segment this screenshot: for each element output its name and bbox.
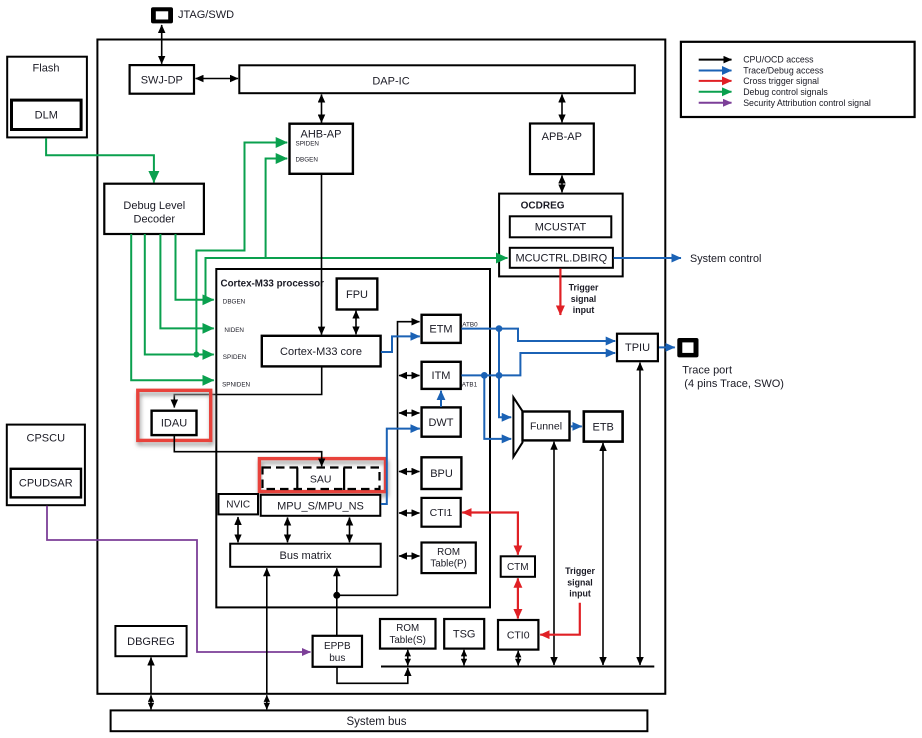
wire CTI1 to CTM (red): [462, 513, 518, 555]
wire DBGEN branch to MCUCTRL.DBIRQ (green): [206, 258, 508, 300]
box DBGREG: [115, 626, 186, 656]
wire trunk to BPU: [399, 471, 420, 473]
wire trunk horizontal: [337, 594, 398, 596]
node Trigger signal input label lower: [565, 566, 595, 599]
Trace port connector icon: [677, 338, 698, 357]
box ROM Table(P): [422, 543, 476, 574]
wire ATB0 branch to Funnel (blue): [499, 329, 511, 418]
svg-text:System bus: System bus: [346, 716, 406, 728]
wire MCUCTRL.DBIRQ to System control (blue): [614, 257, 682, 259]
svg-text:DWT: DWT: [428, 417, 453, 429]
svg-text:IDAU: IDAU: [161, 418, 187, 430]
svg-text:DAP-IC: DAP-IC: [372, 76, 409, 88]
box NVIC: [219, 494, 259, 514]
box Bus matrix: [230, 544, 381, 567]
svg-text:Security Attribution control s: Security Attribution control signal: [743, 98, 871, 108]
wire DLD to SPNIDEN (green): [131, 234, 214, 380]
wire EPPB bus to trace bus: [337, 668, 408, 684]
svg-text:SAU: SAU: [310, 474, 332, 486]
wire FPU to core: [355, 311, 357, 335]
svg-text:TSG: TSG: [453, 629, 476, 641]
wire DLD to DBGEN (green): [176, 234, 214, 300]
wire ETB to trace bus: [602, 443, 604, 665]
box OCDREG: [499, 194, 623, 277]
outer MCU box: [97, 40, 665, 694]
svg-text:signal: signal: [567, 577, 592, 587]
wire TPIU to Trace port (blue): [659, 346, 675, 348]
box DLM: [12, 100, 82, 129]
box IDAU: [152, 411, 197, 435]
svg-text:MCUCTRL.DBIRQ: MCUCTRL.DBIRQ: [515, 253, 607, 265]
legend box: [681, 42, 915, 117]
wire MPU to DWT (blue): [381, 429, 420, 504]
wire DLM to Debug Level Decoder (green): [46, 138, 154, 182]
svg-text:ITM: ITM: [432, 370, 451, 382]
svg-text:BPU: BPU: [430, 468, 453, 480]
svg-text:ETB: ETB: [592, 421, 613, 433]
junction ATB1 right (blue): [496, 372, 503, 379]
wire DWT to ITM (blue): [440, 391, 442, 407]
svg-text:SPNIDEN: SPNIDEN: [222, 382, 250, 389]
wire ATB0 ETM to TPIU (blue): [461, 329, 615, 341]
box CTM: [501, 556, 535, 577]
wire DAP-IC to AHB-AP: [321, 95, 323, 123]
wire JTAG to SWJ-DP: [161, 25, 163, 64]
svg-text:CPU/OCD access: CPU/OCD access: [743, 55, 814, 65]
highlight red box around IDAU: [138, 390, 211, 440]
box Cortex-M33 core: [262, 336, 381, 367]
svg-text:NIDEN: NIDEN: [224, 327, 244, 334]
wire core to ETM (blue): [381, 336, 420, 352]
svg-text:Debug Level: Debug Level: [123, 200, 185, 212]
legend Cross trigger signal: [699, 76, 819, 86]
wire DLD to NIDEN (green): [160, 234, 213, 328]
svg-text:ETM: ETM: [429, 324, 452, 336]
box CPUDSAR: [11, 469, 81, 498]
wire CPSCU to EPPB bus (purple): [47, 506, 311, 652]
svg-text:APB-AP: APB-AP: [542, 131, 582, 143]
node Trigger signal input label upper: [569, 283, 599, 316]
svg-text:DBGEN: DBGEN: [296, 157, 319, 164]
svg-text:Trigger: Trigger: [565, 566, 595, 576]
wire ATB1 ITM to TPIU (blue): [461, 353, 615, 375]
svg-text:DLM: DLM: [35, 110, 58, 122]
box FPU: [337, 279, 378, 310]
svg-text:Trigger: Trigger: [569, 283, 599, 293]
box ROM Table(S): [380, 619, 436, 649]
wire trunk to ROM Table(P): [399, 555, 420, 557]
wire Bus matrix to System bus: [266, 568, 268, 694]
wire trunk to ITM: [399, 375, 420, 377]
wire CTM to CTI0 (red): [517, 578, 519, 618]
shadow IDAU red box: [139, 394, 212, 444]
wire SWJ-DP to DAP-IC: [196, 78, 239, 80]
shadow SAU red box: [261, 462, 387, 495]
box MCUCTRL.DBIRQ: [510, 248, 613, 268]
box SAU dashed outer: [263, 468, 380, 490]
wire SPIDEN branch to AHB-AP (green): [196, 143, 287, 355]
box Debug Level Decoder: [104, 184, 204, 234]
wire IDAU to SAU: [174, 436, 321, 466]
svg-text:Trace port: Trace port: [682, 364, 732, 376]
svg-text:EPPB: EPPB: [324, 641, 351, 652]
box SWJ-DP: [130, 65, 194, 94]
svg-text:ROM: ROM: [437, 547, 460, 558]
svg-text:Decoder: Decoder: [134, 214, 176, 226]
wire APB-AP to OCDREG: [561, 176, 563, 193]
wire trunk to DWT: [399, 412, 420, 414]
highlight red box around SAU: [259, 459, 385, 492]
wire trigger signal input from MCUCTRL.DBIRQ (red): [559, 269, 561, 316]
svg-text:Trace/Debug access: Trace/Debug access: [743, 66, 824, 76]
JTAG/SWD connector icon: [151, 7, 234, 23]
svg-text:DBGREG: DBGREG: [127, 636, 175, 648]
svg-text:OCDREG: OCDREG: [521, 201, 565, 212]
box CTI1: [422, 498, 461, 527]
svg-text:ATB1: ATB1: [462, 381, 478, 388]
box MPU_S/MPU_NS: [261, 495, 381, 516]
box DAP-IC: [239, 65, 635, 93]
box ITM: [422, 362, 461, 389]
wire DBGEN branch to AHB-AP (green): [266, 159, 288, 259]
svg-text:input: input: [569, 589, 591, 599]
svg-text:NVIC: NVIC: [226, 500, 250, 511]
svg-text:CPUDSAR: CPUDSAR: [19, 478, 73, 490]
junction DBGEN (green): [203, 297, 209, 303]
legend Trace/Debug access: [699, 66, 824, 76]
wire TPIU to trace bus: [639, 363, 641, 665]
svg-text:Bus matrix: Bus matrix: [280, 550, 332, 562]
wire DBGREG to System bus: [150, 658, 152, 695]
svg-text:Debug control signals: Debug control signals: [743, 87, 828, 97]
wire Funnel to trace bus: [553, 442, 555, 665]
svg-text:CTI0: CTI0: [507, 630, 530, 642]
box Cortex-M33 processor: [216, 269, 490, 607]
box MCUSTAT: [510, 216, 612, 237]
wire trigger signal input to CTI0 (red): [540, 603, 580, 635]
box EPPB bus: [313, 636, 362, 667]
wire NVIC to Bus matrix: [237, 517, 239, 542]
wire trunk vertical to ETM: [398, 322, 420, 596]
junction ATB1 left (blue): [481, 372, 488, 379]
wire AHB-AP to Cortex-M33 core: [321, 175, 323, 335]
wire DAP-IC to APB-AP: [561, 95, 563, 123]
box CPSCU: [7, 425, 85, 506]
legend Debug control signals: [699, 87, 829, 97]
svg-text:SWJ-DP: SWJ-DP: [141, 75, 183, 87]
wire trace bus horizontal: [381, 666, 654, 668]
box SAU compartment: [297, 468, 344, 491]
svg-text:bus: bus: [329, 653, 345, 664]
svg-text:Cross trigger signal: Cross trigger signal: [743, 76, 819, 86]
box Funnel: [523, 412, 570, 441]
svg-text:Table(P): Table(P): [430, 559, 466, 570]
svg-text:input: input: [573, 305, 595, 315]
wire DLD to SPIDEN (green): [145, 234, 214, 355]
junction ATB0 (blue): [496, 325, 503, 332]
wire ROM Table(S) to trace bus: [407, 650, 409, 666]
svg-text:MPU_S/MPU_NS: MPU_S/MPU_NS: [277, 500, 364, 512]
wire Bus matrix to EPPB bus: [336, 568, 338, 635]
svg-text:FPU: FPU: [346, 289, 368, 301]
svg-text:DBGEN: DBGEN: [223, 299, 246, 306]
box DWT: [422, 407, 461, 436]
legend CPU/OCD access: [699, 55, 814, 65]
svg-text:Table(S): Table(S): [389, 635, 425, 646]
box TSG: [444, 619, 484, 649]
svg-text:signal: signal: [571, 294, 596, 304]
svg-text:SPIDEN: SPIDEN: [296, 140, 320, 147]
wire Funnel to ETB (blue): [571, 425, 582, 427]
svg-text:AHB-AP: AHB-AP: [301, 128, 342, 140]
svg-text:CPSCU: CPSCU: [27, 433, 66, 445]
wire TSG to trace bus: [463, 650, 465, 666]
box BPU: [422, 457, 462, 489]
svg-text:Cortex-M33 core: Cortex-M33 core: [280, 346, 362, 358]
svg-text:(4 pins Trace, SWO): (4 pins Trace, SWO): [684, 378, 784, 390]
wire trunk to CTI1: [399, 512, 420, 514]
svg-text:Cortex-M33 processor: Cortex-M33 processor: [221, 279, 325, 290]
node Trace port label: [682, 364, 784, 389]
box AHB-AP: [290, 124, 353, 174]
svg-text:SPIDEN: SPIDEN: [223, 354, 247, 361]
svg-text:ATB0: ATB0: [462, 321, 478, 328]
svg-text:CTM: CTM: [507, 562, 529, 573]
svg-text:Flash: Flash: [33, 63, 60, 75]
svg-text:JTAG/SWD: JTAG/SWD: [178, 9, 234, 21]
funnel symbol trapezoid: [513, 397, 522, 457]
wire MPU to Bus matrix right: [349, 518, 351, 543]
svg-text:CTI1: CTI1: [430, 507, 453, 519]
svg-text:Funnel: Funnel: [530, 421, 562, 433]
system bus box: [111, 710, 648, 731]
junction SPIDEN (green): [193, 352, 199, 358]
wire MPU to Bus matrix left: [287, 518, 289, 543]
box ETM: [422, 315, 461, 343]
svg-text:MCUSTAT: MCUSTAT: [535, 222, 587, 234]
svg-text:ROM: ROM: [396, 623, 419, 634]
wire CTI0 to trace bus: [517, 651, 519, 666]
box APB-AP: [530, 124, 594, 175]
junction trunk: [333, 592, 340, 599]
box ETB: [584, 412, 623, 442]
wire ATB1 branch to Funnel (blue): [484, 375, 511, 439]
svg-text:System control: System control: [690, 253, 761, 265]
legend Security Attribution control signal: [699, 98, 871, 108]
box CTI0: [498, 620, 538, 650]
svg-text:TPIU: TPIU: [625, 342, 650, 354]
wire core to IDAU: [174, 367, 321, 408]
box TPIU: [617, 334, 658, 362]
box Flash: [7, 57, 87, 138]
